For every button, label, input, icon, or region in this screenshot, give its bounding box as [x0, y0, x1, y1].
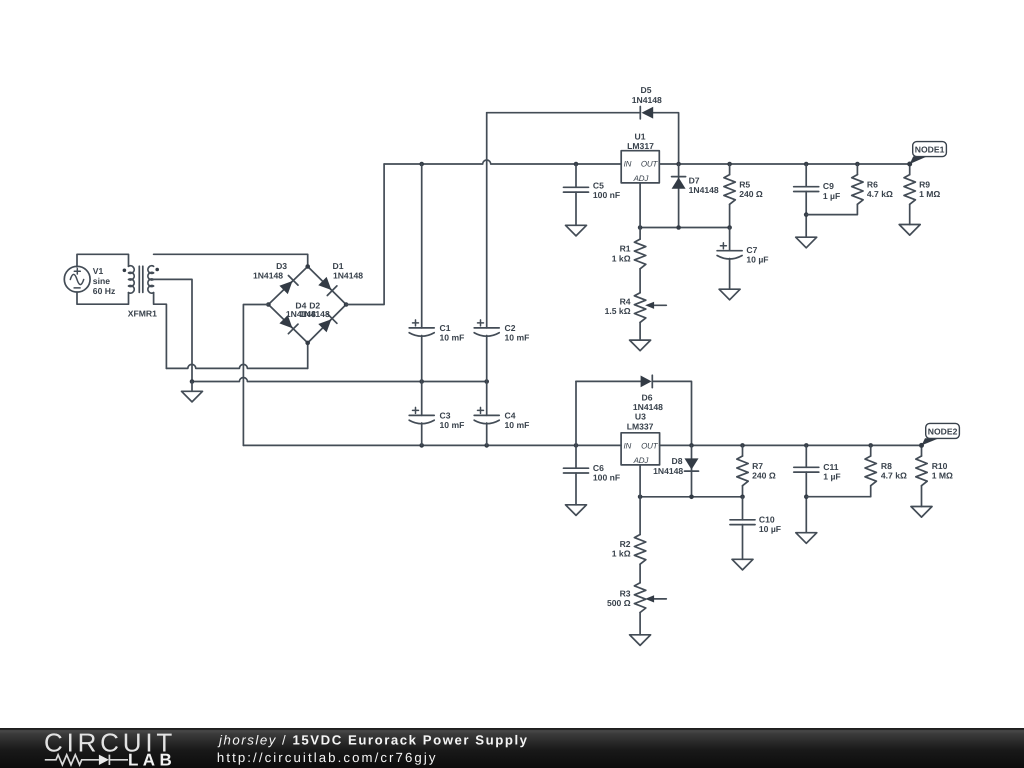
svg-text:100 nF: 100 nF [593, 190, 620, 200]
wire V1 top to transformer primary [77, 254, 129, 267]
svg-text:4.7 kΩ: 4.7 kΩ [881, 471, 907, 481]
svg-text:ADJ: ADJ [633, 456, 650, 465]
wire C11 bottom to R8 bottom [806, 486, 870, 497]
diode D3 1N4148 [279, 281, 292, 294]
svg-text:1 MΩ: 1 MΩ [932, 471, 953, 481]
svg-text:10 µF: 10 µF [746, 255, 768, 265]
svg-text:ADJ: ADJ [633, 174, 650, 183]
wire D6 branch [576, 380, 641, 382]
footer bar [0, 728, 1024, 768]
junction bridge bottom [305, 341, 310, 346]
capacitor C6 100 nF [575, 445, 577, 468]
svg-text:XFMR1: XFMR1 [128, 309, 157, 319]
wire D5 branch [487, 112, 641, 114]
wire U3 OUT rail to NODE2 [660, 444, 922, 446]
diode D6 1N4148 [641, 376, 652, 388]
svg-text:NODE1: NODE1 [915, 145, 945, 155]
junction C11 bottom [804, 494, 809, 499]
ground R10 [911, 507, 932, 518]
diode D2 1N4148 [318, 319, 331, 332]
diode D5 1N4148 [642, 107, 654, 119]
svg-text:10 mF: 10 mF [505, 333, 530, 343]
resistor R8 4.7 kOhm [870, 445, 872, 456]
svg-text:R5: R5 [739, 179, 750, 189]
svg-text:V1: V1 [93, 266, 104, 276]
wire negative input rail to U3 IN [243, 444, 621, 446]
wire U1 OUT rail to NODE1 [659, 163, 909, 165]
junction R7 top [740, 443, 745, 448]
wire U3 ADJ pin [639, 465, 641, 497]
diode D8 1N4148 [691, 445, 693, 496]
svg-text:NODE2: NODE2 [928, 426, 958, 436]
junction D7 bottom [676, 225, 681, 230]
svg-text:C1: C1 [440, 323, 451, 333]
resistor R2 1 kOhm [639, 497, 641, 535]
junction bridge left [266, 302, 271, 307]
junction D7 top [676, 162, 681, 167]
CircuitLab logo [44, 728, 176, 768]
svg-text:1 kΩ: 1 kΩ [612, 253, 631, 263]
svg-text:1.5 kΩ: 1.5 kΩ [605, 306, 631, 316]
junction C4 bottom [484, 443, 489, 448]
ground C10 [732, 559, 753, 570]
svg-text:1N4148: 1N4148 [333, 271, 363, 281]
capacitor C5 100 nF [575, 164, 577, 187]
svg-text:OUT: OUT [641, 160, 659, 169]
svg-text:60 Hz: 60 Hz [93, 286, 115, 296]
svg-text:R8: R8 [881, 461, 892, 471]
svg-text:R10: R10 [932, 461, 948, 471]
svg-text:1N4148: 1N4148 [300, 309, 330, 319]
node NODE1 [907, 142, 946, 167]
junction C5 top [574, 162, 579, 167]
svg-text:C10: C10 [759, 514, 775, 524]
junction bridge right [344, 302, 349, 307]
svg-text:C5: C5 [593, 181, 604, 191]
ground C6 [566, 505, 587, 516]
potentiometer R3 500 Ohm [634, 583, 645, 613]
svg-text:1 µF: 1 µF [823, 191, 840, 201]
ground C5 [566, 225, 587, 236]
junction center tap [190, 379, 195, 384]
svg-text:http://circuitlab.com/cr76gjy: http://circuitlab.com/cr76gjy [217, 750, 438, 765]
svg-text:100 nF: 100 nF [593, 473, 620, 483]
junction ADJ R2 [638, 495, 643, 500]
wire U1 ADJ rail [640, 227, 730, 229]
junction R7 bottom C10 [740, 495, 745, 500]
svg-text:OUT: OUT [641, 442, 659, 451]
ground C9 [796, 237, 817, 248]
svg-text:1 kΩ: 1 kΩ [612, 549, 631, 559]
resistor R6 4.7 kOhm [856, 164, 858, 175]
transformer XFMR1 [123, 266, 159, 319]
svg-text:R1: R1 [620, 244, 631, 254]
svg-text:1 MΩ: 1 MΩ [919, 189, 940, 199]
capacitor C11 1 uF [805, 445, 807, 467]
ground C11 [796, 533, 817, 544]
svg-text:LM337: LM337 [627, 421, 654, 431]
junction bridge top [305, 264, 310, 269]
ground rail from center tap [192, 378, 487, 382]
voltage source V1 sine 60 Hz [64, 266, 115, 296]
junction R5 top [727, 162, 732, 167]
diode D4 1N4148 [279, 315, 292, 328]
svg-text:240 Ω: 240 Ω [752, 471, 776, 481]
ground R4 [630, 340, 651, 351]
svg-text:R7: R7 [752, 461, 763, 471]
diode D1 1N4148 [318, 277, 331, 290]
capacitor C7 10 uF [729, 228, 731, 251]
junction R6 top [855, 162, 860, 167]
svg-text:1N4148: 1N4148 [633, 402, 663, 412]
svg-text:R2: R2 [620, 539, 631, 549]
resistor R5 240 Ohm [729, 164, 731, 175]
svg-text:LM317: LM317 [627, 141, 654, 151]
svg-text:C2: C2 [505, 323, 516, 333]
svg-text:500 Ω: 500 Ω [607, 598, 631, 608]
svg-text:R9: R9 [919, 179, 930, 189]
capacitor C1 10 mF [421, 164, 423, 328]
svg-text:D7: D7 [689, 175, 700, 185]
svg-text:C6: C6 [593, 463, 604, 473]
junction ADJ R1 [638, 225, 643, 230]
svg-text:1N4148: 1N4148 [653, 466, 683, 476]
resistor R7 240 Ohm [742, 445, 744, 456]
resistor R9 1 MOhm [909, 164, 911, 175]
junction R5 bottom C7 [727, 225, 732, 230]
wire bottom AC run with hops [166, 364, 307, 368]
svg-text:D1: D1 [333, 261, 344, 271]
svg-text:C7: C7 [746, 245, 757, 255]
phase dot secondary [155, 268, 159, 272]
wire secondary center tap down to ground rail [154, 279, 192, 381]
svg-text:C4: C4 [505, 410, 516, 420]
node NODE2 [919, 423, 959, 448]
svg-text:1N4148: 1N4148 [689, 185, 719, 195]
svg-text:10 mF: 10 mF [440, 420, 465, 430]
svg-text:D3: D3 [276, 261, 287, 271]
op-amp regulator U1 LM317 [621, 131, 659, 183]
capacitor C2 10 mF [486, 113, 488, 328]
wire U3 ADJ rail [640, 496, 742, 498]
junction C1 bottom [419, 379, 424, 384]
ground R3 [630, 635, 651, 646]
svg-text:10 mF: 10 mF [505, 420, 530, 430]
wire bridge right vertex up to positive input rail [346, 164, 384, 305]
svg-text:IN: IN [624, 160, 632, 169]
svg-text:1 µF: 1 µF [823, 472, 840, 482]
svg-text:IN: IN [624, 442, 632, 451]
svg-text:U3: U3 [635, 412, 646, 422]
op-amp regulator U3 LM337 [621, 412, 660, 465]
diode bridge wires [268, 267, 346, 343]
svg-text:R6: R6 [867, 179, 878, 189]
capacitor C10 10 uF [742, 497, 744, 520]
wire V1 bottom to transformer primary [77, 292, 129, 304]
junction C2 bottom [484, 379, 489, 384]
transformer core [138, 266, 140, 292]
svg-text:D6: D6 [642, 393, 653, 403]
wire bridge left vertex down to negative input rail [243, 305, 268, 446]
junction R8 top [868, 443, 873, 448]
svg-text:C3: C3 [440, 410, 451, 420]
junction C1 top [419, 162, 424, 167]
resistor R1 1 kOhm [639, 228, 641, 240]
svg-text:D8: D8 [672, 456, 683, 466]
junction D8 bottom [689, 495, 694, 500]
capacitor C9 1 uF [805, 164, 807, 187]
phase dot primary [123, 269, 127, 273]
svg-text:U1: U1 [635, 131, 646, 141]
svg-text:10 µF: 10 µF [759, 524, 781, 534]
capacitor C3 10 mF [421, 382, 423, 416]
junction C3 bottom [419, 443, 424, 448]
wire positive input rail to U1 IN [384, 160, 621, 164]
svg-text:1N4148: 1N4148 [253, 271, 283, 281]
svg-text:1N4148: 1N4148 [632, 95, 662, 105]
svg-text:240 Ω: 240 Ω [739, 189, 763, 199]
wire U1 ADJ pin [639, 183, 641, 228]
svg-text:4.7 kΩ: 4.7 kΩ [867, 189, 893, 199]
wire secondary top to bridge top [154, 254, 308, 266]
junction C9 top [804, 162, 809, 167]
svg-text:C9: C9 [823, 181, 834, 191]
svg-text:C11: C11 [823, 462, 839, 472]
potentiometer R4 1.5 kOhm [634, 293, 645, 323]
wire secondary bottom to bridge bottom [154, 293, 167, 369]
svg-text:jhorsley / 15VDC Eurorack Powe: jhorsley / 15VDC Eurorack Power Supply [217, 733, 529, 748]
svg-text:LAB: LAB [128, 751, 176, 768]
svg-text:R3: R3 [620, 588, 631, 598]
ground symbol center tap [191, 382, 193, 392]
ground C7 [719, 289, 740, 300]
diode D7 1N4148 [678, 164, 680, 228]
svg-text:sine: sine [93, 276, 110, 286]
junction D8 top [689, 443, 694, 448]
junction C11 top [804, 443, 809, 448]
wire C9 bottom to R6 bottom [806, 204, 857, 214]
junction C9 bottom [804, 212, 809, 217]
resistor R10 1 MOhm [921, 445, 923, 456]
svg-text:D5: D5 [641, 85, 652, 95]
capacitor C4 10 mF [486, 382, 488, 416]
svg-text:R4: R4 [620, 296, 631, 306]
junction C6 top [574, 443, 579, 448]
svg-text:10 mF: 10 mF [440, 333, 465, 343]
ground R9 [899, 225, 920, 236]
